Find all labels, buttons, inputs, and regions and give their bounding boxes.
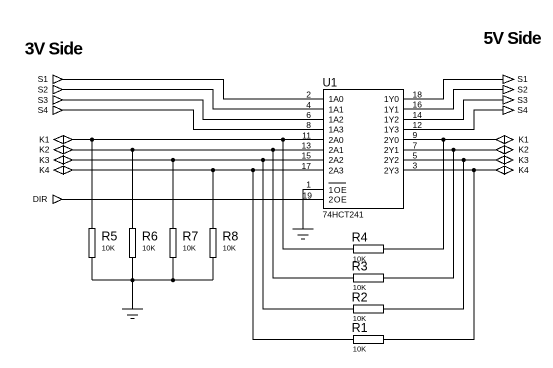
- svg-text:U1: U1: [323, 77, 338, 89]
- svg-text:17: 17: [302, 161, 312, 171]
- pin number 12: [413, 120, 423, 130]
- pin number 6: [306, 110, 311, 120]
- svg-text:K1: K1: [518, 135, 529, 145]
- value 10K of R7: [183, 244, 196, 253]
- wire R1 to K4 5V net: [383, 170, 474, 339]
- wire rail to ground symbol: [132, 280, 134, 309]
- pin number 15: [302, 151, 312, 161]
- pin name 1A3: [329, 125, 344, 135]
- svg-text:K3: K3: [518, 155, 529, 165]
- value 10K of R8: [223, 244, 236, 253]
- wire U1 pin 14 to S3 5V side: [404, 100, 504, 119]
- svg-text:S1: S1: [517, 74, 528, 84]
- connector S2 left (3V): [38, 85, 63, 95]
- wire R4 to K1 5V net: [383, 140, 443, 250]
- svg-text:18: 18: [413, 90, 423, 100]
- svg-text:2A2: 2A2: [329, 155, 344, 165]
- junction K4 5V/R1: [472, 168, 476, 172]
- resistor R8 10K (pulldown): [210, 229, 216, 258]
- node U1 reference label: [323, 77, 338, 89]
- svg-text:S2: S2: [517, 85, 528, 95]
- svg-text:2Y3: 2Y3: [384, 165, 399, 175]
- wire R8 top to K4 net: [212, 170, 214, 229]
- svg-text:1Y0: 1Y0: [384, 94, 399, 104]
- wire U1 pin 12 to S4 5V side: [404, 110, 504, 129]
- svg-text:S4: S4: [517, 105, 528, 115]
- pin number 2: [306, 90, 311, 100]
- svg-text:4: 4: [306, 100, 311, 110]
- wire R6 bottom to ground rail: [132, 258, 134, 281]
- pin name 1OE (active low): [329, 185, 348, 195]
- pin name 2Y2: [384, 155, 399, 165]
- resistor R7 10K (pulldown): [170, 229, 176, 258]
- label R7: [182, 229, 198, 243]
- junction rail/R6/ground: [130, 278, 134, 282]
- svg-text:S3: S3: [517, 95, 528, 105]
- junction K2 5V/R3: [451, 148, 455, 152]
- junction K2/R6: [130, 148, 134, 152]
- svg-text:9: 9: [413, 130, 418, 140]
- svg-text:1A3: 1A3: [329, 125, 344, 135]
- resistor R4 10K (series): [354, 245, 384, 253]
- value 10K of R1: [353, 345, 366, 354]
- label R2: [352, 290, 368, 304]
- svg-text:K1: K1: [39, 135, 50, 145]
- svg-text:3: 3: [413, 161, 418, 171]
- label R8: [222, 229, 238, 243]
- svg-text:5V Side: 5V Side: [484, 28, 542, 48]
- svg-text:2Y0: 2Y0: [384, 135, 399, 145]
- pin number 13: [302, 141, 312, 151]
- svg-text:11: 11: [302, 130, 311, 140]
- svg-text:2Y2: 2Y2: [384, 155, 399, 165]
- svg-text:14: 14: [413, 110, 423, 120]
- pin name 2A3: [329, 165, 344, 175]
- wire ground rail under R5-R8: [92, 279, 213, 281]
- pin number 11: [302, 130, 311, 140]
- junction K2/R3: [271, 148, 275, 152]
- wire R7 bottom to ground rail: [172, 258, 174, 281]
- wire S1 3V side to U1 pin 2: [63, 79, 324, 99]
- wire K1 3V side to U1 pin 11: [73, 139, 324, 141]
- wire U1 pin 5 to K3 5V side: [404, 159, 497, 161]
- svg-text:2A1: 2A1: [329, 145, 344, 155]
- svg-text:15: 15: [302, 151, 312, 161]
- wire S4 3V side to U1 pin 8: [63, 110, 324, 129]
- svg-text:R7: R7: [182, 229, 198, 243]
- pin number 7: [413, 140, 418, 150]
- connector K4 left (3V): [39, 165, 72, 175]
- svg-text:10K: 10K: [142, 244, 155, 253]
- svg-text:R8: R8: [222, 229, 238, 243]
- wire K2 3V side to U1 pin 13: [73, 149, 324, 151]
- svg-text:1A2: 1A2: [329, 115, 344, 125]
- ground under pulldown resistors: [122, 309, 143, 319]
- svg-text:2: 2: [306, 90, 311, 100]
- node 5V Side title: [484, 28, 542, 48]
- label R3: [352, 259, 368, 273]
- pin number 5: [413, 151, 418, 161]
- junction K4/R1: [251, 168, 255, 172]
- value 10K of R3: [353, 283, 366, 292]
- node 3V Side title: [25, 39, 83, 59]
- svg-text:K2: K2: [518, 145, 529, 155]
- connector K4 right (5V): [496, 165, 529, 175]
- connector S1 right (5V): [503, 74, 528, 84]
- svg-text:1Y3: 1Y3: [384, 125, 399, 135]
- connector K2 right (5V): [496, 145, 529, 155]
- svg-text:16: 16: [413, 100, 423, 110]
- wire U1 pin 3 to K4 5V side: [404, 169, 497, 171]
- connector K1 right (5V): [496, 135, 529, 145]
- svg-text:1OE: 1OE: [329, 185, 348, 195]
- ground at U1 pin 1: [293, 229, 314, 239]
- svg-text:5: 5: [413, 151, 418, 161]
- junction K3/R2: [261, 158, 265, 162]
- wire U1 pin 7 to K2 5V side: [404, 149, 497, 151]
- svg-text:R5: R5: [101, 229, 117, 243]
- pin name 1A1: [329, 104, 344, 114]
- wire S2 3V side to U1 pin 4: [63, 90, 324, 110]
- pin name 1A0: [329, 94, 344, 104]
- svg-text:7: 7: [413, 140, 418, 150]
- svg-text:10K: 10K: [223, 244, 236, 253]
- connector K3 right (5V): [496, 155, 529, 165]
- svg-text:1A0: 1A0: [329, 94, 344, 104]
- value 10K of R2: [353, 314, 366, 323]
- svg-text:10K: 10K: [353, 345, 366, 354]
- junction K1/R5: [90, 138, 94, 142]
- svg-text:6: 6: [306, 110, 311, 120]
- svg-text:2A3: 2A3: [329, 165, 344, 175]
- junction K3/R7: [171, 158, 175, 162]
- overline for 1OE: [328, 182, 346, 184]
- connector S3 left (3V): [38, 95, 63, 105]
- pin name 2Y3: [384, 165, 399, 175]
- svg-text:13: 13: [302, 141, 312, 151]
- svg-text:12: 12: [413, 120, 423, 130]
- svg-text:R3: R3: [352, 259, 368, 273]
- svg-text:10K: 10K: [183, 244, 196, 253]
- node 74HCT241 value label: [323, 210, 364, 220]
- svg-text:S2: S2: [38, 85, 49, 95]
- svg-text:1A1: 1A1: [329, 104, 344, 114]
- svg-text:1: 1: [306, 179, 311, 189]
- pin number 17: [302, 161, 312, 171]
- svg-text:R6: R6: [142, 229, 158, 243]
- pin number 8: [306, 120, 311, 130]
- pin number 3: [413, 161, 418, 171]
- pin number 18: [413, 90, 423, 100]
- pin number 19: [303, 191, 313, 201]
- pin name 1A2: [329, 115, 344, 125]
- value 10K of R4: [353, 254, 366, 263]
- value 10K of R5: [102, 244, 115, 253]
- wire R3 to K2 5V net: [383, 150, 453, 278]
- resistor R2 10K (series): [354, 305, 384, 313]
- svg-text:R1: R1: [352, 321, 368, 335]
- svg-text:S4: S4: [38, 105, 49, 115]
- pin name 2Y0: [384, 135, 399, 145]
- svg-text:K2: K2: [39, 145, 50, 155]
- svg-text:S1: S1: [38, 74, 49, 84]
- wire K2 3V net down to R3: [273, 150, 354, 278]
- junction K1/R4: [281, 138, 285, 142]
- wire R2 to K3 5V net: [383, 160, 463, 309]
- connector K3 left (3V): [39, 155, 72, 165]
- resistor R3 10K (series): [354, 274, 384, 282]
- resistor R6 10K (pulldown): [129, 229, 135, 258]
- wire R5 bottom to ground rail: [91, 258, 93, 281]
- svg-text:8: 8: [306, 120, 311, 130]
- svg-text:2OE: 2OE: [329, 195, 348, 205]
- junction K1 5V/R4: [441, 138, 445, 142]
- wire K3 3V side to U1 pin 15: [73, 159, 324, 161]
- svg-text:1Y1: 1Y1: [384, 104, 399, 114]
- svg-text:19: 19: [303, 191, 313, 201]
- connector S3 right (5V): [503, 95, 528, 105]
- label R5: [101, 229, 117, 243]
- wire R6 top to K2 net: [132, 150, 134, 229]
- connector K2 left (3V): [39, 145, 72, 155]
- connector S4 right (5V): [503, 105, 528, 115]
- pin name 1Y0: [384, 94, 399, 104]
- wire U1 pin 9 to K1 5V side: [404, 139, 497, 141]
- connector K1 left (3V): [39, 135, 72, 145]
- wire R7 top to K3 net: [172, 160, 174, 229]
- junction K4/R8: [211, 168, 215, 172]
- svg-text:K4: K4: [39, 165, 50, 175]
- svg-text:3V Side: 3V Side: [25, 39, 83, 59]
- connector S4 left (3V): [38, 105, 63, 115]
- svg-text:R2: R2: [352, 290, 368, 304]
- pin name 1Y2: [384, 115, 399, 125]
- resistor R1 10K (series): [354, 335, 384, 343]
- svg-text:2Y1: 2Y1: [384, 145, 399, 155]
- pin name 1Y1: [384, 104, 399, 114]
- wire K1 3V net down to R4: [283, 140, 354, 250]
- label R1: [352, 321, 368, 335]
- svg-text:74HCT241: 74HCT241: [323, 210, 364, 220]
- value 10K of R6: [142, 244, 155, 253]
- pin name 2A2: [329, 155, 344, 165]
- pin name 2Y1: [384, 145, 399, 155]
- pin number 14: [413, 110, 423, 120]
- svg-text:K4: K4: [518, 165, 529, 175]
- svg-text:2A0: 2A0: [329, 135, 344, 145]
- svg-text:S3: S3: [38, 95, 49, 105]
- wire K4 3V net down to R1: [253, 170, 354, 339]
- pin name 2A1: [329, 145, 344, 155]
- pin number 16: [413, 100, 423, 110]
- svg-text:10K: 10K: [102, 244, 115, 253]
- junction rail/R7: [171, 278, 175, 282]
- op-amp U1 74HCT241 buffer IC body: [324, 90, 404, 209]
- connector S1 left (3V): [38, 74, 63, 84]
- pin number 1: [306, 179, 311, 189]
- pin name 2OE: [329, 195, 348, 205]
- wire U1 pin 1 to ground: [303, 190, 324, 230]
- wire R8 bottom to ground rail: [212, 258, 214, 281]
- svg-text:1Y2: 1Y2: [384, 115, 399, 125]
- svg-text:K3: K3: [39, 155, 50, 165]
- connector S2 right (5V): [503, 85, 528, 95]
- svg-text:R4: R4: [352, 231, 368, 245]
- wire S3 3V side to U1 pin 6: [63, 100, 324, 119]
- wire DIR to U1 pin 19: [62, 198, 324, 200]
- wire U1 pin 18 to S1 5V side: [404, 79, 504, 99]
- wire K4 3V side to U1 pin 17: [73, 169, 324, 171]
- resistor R5 10K (pulldown): [89, 229, 95, 258]
- label R4: [352, 231, 368, 245]
- pin number 4: [306, 100, 311, 110]
- junction K3 5V/R2: [462, 158, 466, 162]
- pin name 1Y3: [384, 125, 399, 135]
- wire U1 pin 16 to S2 5V side: [404, 90, 504, 110]
- wire K3 3V net down to R2: [263, 160, 354, 309]
- pin name 2A0: [329, 135, 344, 145]
- pin number 9: [413, 130, 418, 140]
- svg-text:DIR: DIR: [33, 194, 48, 204]
- label R6: [142, 229, 158, 243]
- wire R5 top to K1 net: [91, 140, 93, 229]
- connector DIR: [33, 194, 62, 204]
